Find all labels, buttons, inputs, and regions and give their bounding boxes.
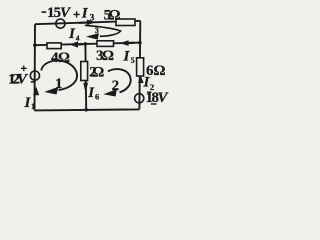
svg-text:3Ω: 3Ω [96, 48, 114, 64]
current arrow I5 [120, 40, 135, 65]
svg-text:3: 3 [95, 26, 99, 35]
svg-text:4: 4 [76, 33, 80, 42]
svg-text:5: 5 [131, 56, 135, 65]
voltage source 18V [135, 90, 170, 106]
node junction dot left [33, 43, 37, 47]
voltage source 15V [42, 5, 80, 28]
resistor 6ohm [137, 58, 166, 79]
resistor 2ohm [81, 62, 105, 81]
svg-text:5Ω: 5Ω [104, 7, 121, 23]
svg-text:I: I [123, 48, 131, 64]
current arrow I6 [83, 83, 99, 102]
svg-text:I: I [68, 26, 76, 42]
node junction dot bottom [84, 108, 88, 112]
wire left vertical [34, 24, 37, 110]
svg-text:3: 3 [90, 13, 95, 23]
resistor 3ohm [96, 41, 114, 64]
wire bottom [35, 109, 140, 110]
mesh loop 3 [85, 25, 121, 39]
svg-text:2Ω: 2Ω [89, 64, 104, 80]
current arrow I2 [138, 75, 154, 92]
voltage source 12V [8, 66, 40, 88]
svg-text:4Ω: 4Ω [51, 50, 70, 66]
wire middle vertical [84, 44, 87, 110]
node junction dot middle [84, 42, 88, 46]
wire middle horizontal [35, 43, 140, 46]
svg-text:15V: 15V [47, 5, 72, 21]
svg-text:6: 6 [95, 92, 99, 102]
wire right vertical [138, 21, 141, 110]
mesh loop 2 [103, 69, 130, 96]
svg-text:I: I [81, 6, 89, 22]
current arrow I3 [79, 6, 96, 26]
node junction dot right [138, 41, 142, 45]
svg-text:12V: 12V [8, 72, 29, 88]
wire top [35, 21, 140, 24]
svg-text:1: 1 [31, 102, 35, 111]
svg-text:1: 1 [55, 76, 63, 92]
current arrow I4 [68, 26, 84, 48]
svg-text:2: 2 [112, 78, 120, 94]
mesh loop 1 [41, 60, 77, 94]
resistor 4ohm [47, 43, 70, 66]
resistor 5ohm [104, 7, 136, 25]
svg-text:18V: 18V [146, 90, 170, 106]
current arrow I1 [24, 87, 40, 111]
